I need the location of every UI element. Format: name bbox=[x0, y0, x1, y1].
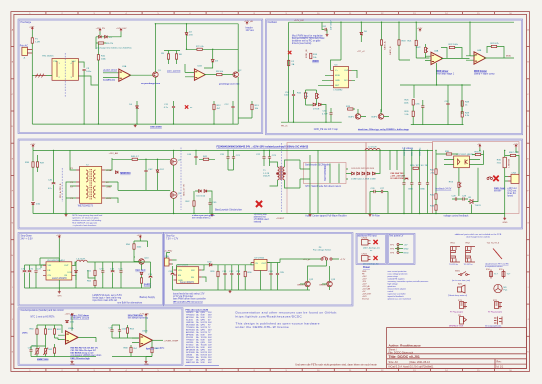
svg-text:precharge over ride: precharge over ride bbox=[219, 84, 240, 86]
connector J1 bbox=[22, 47, 28, 55]
svg-text:100n: 100n bbox=[86, 71, 92, 73]
connector CN5 bbox=[165, 258, 170, 266]
cap C12 bottom bbox=[231, 106, 234, 107]
thermistor TH2 bbox=[45, 349, 47, 354]
resistor R51 fb bbox=[94, 270, 96, 275]
svg-text:additional PS input: additional PS input bbox=[358, 234, 378, 237]
wire C44 bbox=[195, 150, 197, 165]
wire R34 bbox=[472, 150, 484, 164]
svg-text:+5V: +5V bbox=[404, 244, 408, 246]
power +12V_AN ot1 bbox=[71, 314, 73, 317]
rectifier diode pair 4 bbox=[367, 172, 370, 175]
optocoupler U7 bbox=[454, 156, 470, 168]
power +24V main bbox=[32, 145, 34, 148]
wire TH1 bbox=[36, 346, 38, 357]
resistor R23 fb2 bbox=[491, 45, 496, 47]
zener D6 top bbox=[360, 32, 363, 35]
svg-text:(on to save time, jum): (on to save time, jum) bbox=[452, 279, 471, 282]
thermistor TH1 bbox=[36, 349, 38, 354]
svg-text:3A/DC: 3A/DC bbox=[144, 283, 151, 286]
wire stub to transformer bbox=[32, 75, 52, 77]
pi filter cap 3 bbox=[418, 183, 421, 184]
resistor R30 bbox=[446, 153, 451, 155]
svg-text:SWITCHNODE: SWITCHNODE bbox=[325, 165, 327, 181]
wire cluster bbox=[390, 150, 397, 170]
svg-text:Id: 1/1: Id: 1/1 bbox=[497, 366, 504, 369]
wire C63 bbox=[330, 108, 332, 122]
svg-text:-15A: -15A bbox=[106, 186, 111, 189]
svg-text:hyst 1°C: hyst 1°C bbox=[146, 347, 155, 350]
cap C84 bbox=[269, 273, 272, 274]
svg-text:DIV: DIV bbox=[344, 80, 348, 82]
svg-text:SEC_CT 0V: SEC_CT 0V bbox=[184, 184, 186, 196]
power +12V_PS bbox=[99, 29, 101, 32]
connector J1 pins bbox=[27, 50, 32, 54]
svg-text:GATE_A: GATE_A bbox=[383, 41, 386, 50]
svg-text:1.5KE takes 1.5KE 1.5KE: 1.5KE takes 1.5KE 1.5KE bbox=[351, 177, 376, 180]
svg-text:U9 L7815: U9 L7815 bbox=[255, 257, 265, 259]
transistor Q13 bbox=[327, 281, 333, 287]
cap C20 bbox=[226, 157, 229, 158]
section box main converter bbox=[18, 139, 523, 229]
svg-text:optional aux, see mainsheet: optional aux, see mainsheet bbox=[388, 298, 412, 301]
wire U1A out to Q1 bbox=[129, 74, 153, 76]
svg-text:R40 4.7: R40 4.7 bbox=[131, 156, 139, 158]
wire U3 V+ bbox=[318, 22, 341, 85]
wire D12 bbox=[157, 159, 159, 190]
inductor L3 bbox=[77, 260, 88, 262]
wires R5 R6 bbox=[164, 51, 180, 65]
wire U5 gnd bbox=[58, 280, 60, 291]
wire C85 bbox=[277, 263, 279, 291]
resistor R33 bbox=[435, 205, 437, 210]
svg-text:OUT: OUT bbox=[262, 263, 267, 265]
svg-text:GND: GND bbox=[70, 364, 75, 366]
svg-text:see BoM for alternatives: see BoM for alternatives bbox=[117, 301, 143, 304]
wire transformer sec pin1 to C9 bbox=[78, 62, 84, 68]
svg-text:U10B: U10B bbox=[142, 331, 148, 333]
wire Q10 bbox=[134, 257, 142, 270]
wire T1 bbox=[270, 160, 301, 188]
wire rect diodes bbox=[346, 150, 380, 179]
svg-text:GND AGND: GND AGND bbox=[150, 126, 162, 129]
wire U3 out bbox=[352, 70, 358, 80]
resistor R5 bbox=[167, 54, 169, 59]
cap C57 bbox=[446, 103, 449, 104]
svg-text:+OVER_TEMP: +OVER_TEMP bbox=[164, 340, 179, 342]
wire rect inputs bbox=[300, 150, 339, 213]
resistor R37 bbox=[36, 162, 38, 167]
zener D2 bbox=[185, 33, 188, 36]
svg-text:+12V_AL: +12V_AL bbox=[244, 20, 254, 23]
cap C72 bbox=[34, 271, 37, 272]
op-amp U4B bbox=[474, 52, 486, 64]
wire trimmer bbox=[306, 90, 317, 105]
wire TL431 bbox=[468, 168, 478, 214]
CN10 pins bbox=[368, 241, 371, 244]
wire pi 3 bbox=[419, 150, 421, 213]
isolation dashed main bbox=[281, 143, 283, 212]
flag FT1 bbox=[460, 302, 464, 309]
wire C20 C21 bbox=[228, 150, 234, 170]
wire C9 down bbox=[83, 71, 85, 124]
transformer T1 bbox=[278, 167, 285, 180]
trimmer RV1 bbox=[316, 93, 319, 98]
bottom rail bbox=[32, 123, 238, 125]
diode D7 bbox=[313, 103, 316, 106]
osc right: resistor R21 bbox=[415, 40, 417, 45]
op-amp U10B bbox=[140, 334, 153, 347]
svg-text:+Load_sense: +Load_sense bbox=[103, 70, 118, 72]
su bottom rail bbox=[173, 289, 311, 291]
diode D40 bbox=[66, 320, 69, 322]
wire C80 bbox=[172, 266, 174, 290]
pink box rectifier bbox=[287, 143, 366, 214]
junction dots osc bbox=[293, 22, 471, 123]
diode D1a bbox=[99, 35, 102, 38]
svg-text:instead: instead bbox=[254, 221, 262, 224]
svg-text:RED LED: RED LED bbox=[135, 270, 145, 272]
wire R12 bbox=[213, 101, 215, 124]
wire caps down bbox=[25, 265, 47, 288]
opamp U4A input wires bbox=[425, 56, 432, 60]
svg-text:150uH: 150uH bbox=[263, 176, 270, 178]
wire C73 bbox=[102, 262, 104, 288]
U9 pins bbox=[251, 262, 270, 264]
svg-text:switch 260kHz: switch 260kHz bbox=[52, 277, 68, 280]
svg-text:- is placed in front elsewhere: - is placed in front elsewhere bbox=[72, 224, 96, 227]
svg-text:or equivalent isolator: or equivalent isolator bbox=[485, 265, 503, 268]
wire diode pair bbox=[96, 32, 121, 37]
svg-text:boost 400kHz: boost 400kHz bbox=[180, 281, 195, 284]
svg-text:+5V: +5V bbox=[477, 144, 481, 146]
svg-text:Author: Roadthecause: Author: Roadthecause bbox=[389, 344, 422, 348]
svg-text:+12V_AN: +12V_AN bbox=[139, 312, 149, 315]
resistor R9 bbox=[217, 74, 222, 76]
diode D1b bbox=[105, 35, 108, 38]
power +24V right bbox=[515, 145, 517, 148]
wire su rail top bbox=[177, 265, 206, 270]
wire R10 top/bottom bbox=[97, 44, 99, 124]
mosfet M4 right bbox=[510, 154, 515, 156]
pi filter cap 4 bbox=[426, 183, 429, 184]
minipads symbol bbox=[460, 317, 464, 325]
svg-text:+12V: +12V bbox=[417, 28, 423, 30]
svg-text:Title: DC/DC v0-J01: Title: DC/DC v0-J01 bbox=[389, 355, 420, 359]
svg-text:WE750343373: WE750343373 bbox=[78, 205, 94, 207]
wire U4B out bbox=[484, 47, 514, 59]
resistor R40 bbox=[132, 158, 137, 160]
wire D30 bbox=[75, 262, 77, 288]
transformer input hatched stub bbox=[35, 74, 46, 78]
cap C81 bbox=[223, 273, 226, 274]
svg-text:J: J bbox=[12, 319, 13, 321]
wire gnd2 bbox=[146, 357, 152, 361]
wire R30 bbox=[436, 150, 458, 169]
wire +5V5 bbox=[134, 239, 148, 248]
svg-text:TL431: TL431 bbox=[475, 205, 482, 207]
ot bottom rail right bbox=[112, 356, 152, 358]
trimmer RV3 bbox=[458, 182, 461, 187]
svg-text:+24V: +24V bbox=[29, 27, 35, 29]
buzzer BZ1 bbox=[458, 285, 466, 293]
svg-text:GATE_B: GATE_B bbox=[389, 46, 392, 55]
diode D13 bbox=[199, 190, 202, 193]
wire C12 bbox=[232, 101, 234, 124]
svg-text:1nF 100V: 1nF 100V bbox=[331, 20, 333, 30]
diode D3 bbox=[211, 60, 214, 62]
wire +12V to opamp rail bbox=[470, 22, 475, 56]
opamp U1B input wires bbox=[185, 64, 196, 77]
resistor R55 bbox=[217, 271, 219, 276]
ground main right bbox=[503, 217, 506, 220]
TP wire bbox=[395, 246, 398, 253]
svg-text:LTC6992: LTC6992 bbox=[334, 90, 344, 92]
op-amp U1B bbox=[194, 69, 205, 80]
svg-text:R70 / R71 10 / 2R: R70 / R71 10 / 2R bbox=[410, 165, 428, 167]
top rail bbox=[155, 23, 238, 25]
svg-text:MOD: MOD bbox=[506, 56, 512, 58]
op-amp U10A bbox=[66, 331, 79, 344]
wire fb divider bbox=[88, 262, 95, 288]
wire C51 bbox=[293, 90, 295, 122]
svg-text:+5VEXT: +5VEXT bbox=[276, 218, 285, 220]
transformer pins left bbox=[76, 170, 105, 198]
fuse F11 bbox=[502, 272, 505, 277]
wire R21 bbox=[415, 22, 417, 58]
section box additional PS input bbox=[356, 233, 387, 264]
wire pi 2 bbox=[411, 150, 413, 213]
shunt R35 bbox=[503, 157, 506, 167]
IC U5 pins bbox=[43, 265, 75, 275]
svg-text:D13 D14: D13 D14 bbox=[197, 196, 206, 198]
svg-text:Step-Down: Step-Down bbox=[21, 235, 33, 238]
diode D30 bbox=[75, 270, 78, 272]
wire gnd stub bbox=[504, 214, 506, 218]
connector CN3 bbox=[511, 174, 519, 183]
wire ot1 bbox=[71, 317, 73, 331]
svg-text:MOD: MOD bbox=[335, 75, 341, 77]
wire R28 R29 bbox=[461, 106, 463, 124]
pink box voltage control feedback bbox=[433, 142, 520, 214]
svg-text:4.7nF: 4.7nF bbox=[322, 113, 328, 115]
wire C76 bbox=[128, 262, 151, 288]
CONTENT bbox=[20, 20, 255, 129]
IC U5 buck bbox=[46, 262, 72, 280]
wire R3 bbox=[96, 37, 106, 49]
resistor R34 bbox=[475, 153, 480, 155]
svg-text:ON: ON bbox=[48, 275, 52, 277]
svg-text:EN: EN bbox=[178, 275, 181, 277]
wire D4 bbox=[136, 101, 138, 124]
svg-text:Power: Power bbox=[363, 267, 370, 269]
cap C94 bbox=[118, 330, 121, 331]
svg-text:File: DCDC-Driver.sch: File: DCDC-Driver.sch bbox=[389, 351, 414, 354]
X CN11 bbox=[373, 256, 377, 260]
bottom rail osc bbox=[281, 121, 342, 123]
svg-text:+12V_AN: +12V_AN bbox=[65, 312, 75, 315]
svg-text:drivers (see below): drivers (see below) bbox=[292, 42, 312, 45]
svg-text:VIN: VIN bbox=[178, 270, 182, 272]
cap C28 bbox=[455, 197, 456, 200]
resistor R52 fb bbox=[94, 280, 96, 285]
wire C28 C29 bbox=[452, 198, 468, 200]
bridge pads symbol bbox=[494, 317, 502, 325]
bus dashed mid bbox=[180, 148, 182, 211]
resistor R18 bbox=[398, 40, 400, 45]
resistor R28 bbox=[461, 101, 463, 106]
svg-text:over_current: over_current bbox=[167, 70, 181, 73]
svg-text:+TP_s2: +TP_s2 bbox=[357, 51, 365, 53]
svg-text:L2 15uH: L2 15uH bbox=[368, 147, 377, 149]
resistor R32 bbox=[435, 194, 437, 199]
wire C84 bbox=[270, 263, 272, 291]
cap C83 bbox=[237, 273, 240, 274]
osc mid rail bbox=[400, 63, 471, 114]
big X dnp bbox=[256, 201, 262, 207]
svg-text:C64 10u: C64 10u bbox=[404, 147, 406, 156]
zener D12 bbox=[156, 170, 159, 173]
ground mid pi bbox=[369, 214, 372, 217]
ecap C70 bbox=[23, 271, 27, 272]
wire R25 R26 bbox=[412, 105, 414, 125]
wire R7 to Q2 column bbox=[187, 48, 239, 50]
cap C75 bbox=[119, 271, 122, 272]
svg-text:OUT: OUT bbox=[344, 70, 349, 72]
wire su input bbox=[167, 253, 177, 265]
svg-text:MMBT3906: MMBT3906 bbox=[37, 359, 49, 361]
ground su bbox=[229, 290, 232, 293]
cap C51 bbox=[292, 94, 295, 95]
main transformer T2 bbox=[80, 166, 102, 203]
wire Q2 collector/emitter bbox=[237, 24, 239, 124]
wire D32 rail bbox=[212, 264, 254, 266]
resistor R15 bbox=[304, 93, 306, 98]
section box Step-Down bbox=[18, 233, 164, 307]
resistor R68 bbox=[130, 347, 132, 352]
rectifier diode pair 2 bbox=[357, 172, 360, 175]
wire M4 bbox=[505, 148, 519, 175]
cap C11 bottom bbox=[172, 106, 175, 107]
wire R31 bbox=[435, 174, 437, 193]
svg-text:dead time: 100ns typ, set by R: dead time: 100ns typ, set by R19/R20 + b… bbox=[358, 128, 410, 131]
wire U9 bbox=[251, 263, 280, 291]
svg-text:Pi-Filter: Pi-Filter bbox=[372, 214, 380, 217]
osc bottom rail 2 bbox=[411, 124, 464, 126]
wire C94 bbox=[119, 325, 121, 338]
cap C93 bbox=[110, 330, 113, 331]
wire Q5 bbox=[118, 176, 174, 214]
opamp U10A in wires bbox=[55, 335, 65, 339]
fuse F10 bbox=[490, 272, 493, 277]
cap C42 bbox=[144, 170, 147, 171]
svg-text:error amp stage 1: error amp stage 1 bbox=[436, 73, 455, 76]
wire R32 R33 bbox=[435, 199, 437, 213]
svg-text:of 10mV/°C sensed: of 10mV/°C sensed bbox=[70, 317, 89, 319]
svg-text:GND: GND bbox=[144, 364, 149, 366]
wire pi 1 bbox=[403, 150, 405, 213]
isolation dashed line bbox=[64, 53, 66, 98]
wire R56 bbox=[244, 265, 246, 290]
cap C21 bbox=[232, 157, 235, 158]
wire TH2 bbox=[31, 346, 46, 357]
svg-text:clamp + slope comp: clamp + slope comp bbox=[474, 74, 495, 76]
resistor R36 bbox=[32, 162, 34, 167]
svg-text:voltage control feedback: voltage control feedback bbox=[444, 214, 470, 217]
svg-text:R23 47k: R23 47k bbox=[491, 43, 500, 45]
wire C93 bbox=[112, 325, 120, 338]
resistor R13 bottom bbox=[251, 104, 253, 109]
wire divider ot bbox=[37, 325, 62, 346]
connector CN10 bbox=[362, 240, 369, 246]
wire Q1 collector to top rail bbox=[154, 24, 156, 73]
svg-text:GRUN: GRUN bbox=[319, 284, 326, 286]
svg-text:TO-247 hs: TO-247 hs bbox=[464, 264, 473, 266]
wire R40 bbox=[112, 158, 170, 160]
svg-text:VIN: VIN bbox=[48, 265, 52, 267]
svg-text:Size: A3: Size: A3 bbox=[389, 361, 399, 364]
svg-text:MOD driver: MOD driver bbox=[436, 71, 448, 73]
svg-text:F22#09#18#09#21#36#42 24V→±15V: F22#09#18#09#21#36#42 24V→±15V+18V isola… bbox=[217, 145, 309, 148]
svg-text:(but thought to be useful): (but thought to be useful) bbox=[466, 236, 489, 239]
svg-text:sense+: sense+ bbox=[494, 190, 502, 192]
trimmer RV2 bbox=[425, 47, 428, 52]
regulator U9 bbox=[254, 259, 267, 270]
ground C62 bbox=[326, 34, 329, 37]
connector CN11 bbox=[362, 256, 369, 262]
cap C29 bbox=[463, 197, 464, 200]
IC U3 oscillator bbox=[334, 67, 349, 88]
resistor R26 bbox=[412, 111, 414, 116]
svg-text:GND: GND bbox=[408, 188, 413, 190]
ground mid left bbox=[65, 214, 68, 217]
svg-text:GRUN: GRUN bbox=[297, 284, 304, 286]
wire ot2 bbox=[145, 317, 147, 334]
svg-text:+12V_PS: +12V_PS bbox=[96, 28, 106, 30]
svg-text:Backup Supply: Backup Supply bbox=[140, 297, 156, 299]
cap C22 bbox=[262, 157, 265, 158]
wire D6 bbox=[360, 22, 362, 42]
svg-text:KiCad E.D.A. kicad (5.1.9)-1-: KiCad E.D.A. kicad (5.1.9)-1-gfd72bd8a61 bbox=[389, 366, 434, 369]
svg-text:fan always spinning: fan always spinning bbox=[128, 317, 149, 319]
svg-text:U5 LM2679S-ADJ: U5 LM2679S-ADJ bbox=[47, 259, 65, 262]
wire R18 bbox=[399, 22, 410, 60]
wire U10B out bbox=[152, 339, 163, 341]
wire R36 R37 bbox=[33, 150, 38, 201]
IC U6 boost bbox=[177, 267, 199, 284]
svg-text:#MOD: #MOD bbox=[312, 61, 319, 63]
svg-text:TL1 TL2 TL3: TL1 TL2 TL3 bbox=[487, 243, 500, 245]
resistor R69 bbox=[151, 347, 153, 352]
wire RV2 bbox=[416, 44, 429, 58]
svg-text:PRI_A / PRI_B: PRI_A / PRI_B bbox=[59, 183, 62, 198]
svg-text:(5V_backup_in): (5V_backup_in) bbox=[363, 263, 379, 265]
section box Oscillator bbox=[266, 19, 523, 135]
wire D31 R53 bbox=[141, 275, 143, 288]
op-amp U4A bbox=[431, 52, 443, 64]
fuse F1 bbox=[31, 38, 33, 43]
wire C26 C27 bbox=[370, 192, 388, 214]
wire U5 bbox=[40, 258, 76, 280]
svg-text:Precharge: Precharge bbox=[21, 21, 32, 24]
svg-text:MBR0540: MBR0540 bbox=[120, 172, 131, 175]
cap C63 bbox=[329, 113, 332, 114]
wire fb bbox=[455, 48, 462, 59]
wire diodes bbox=[306, 105, 327, 123]
led D31 bbox=[140, 272, 143, 274]
svg-text:CN11: CN11 bbox=[362, 254, 368, 256]
wire +24V to F1 bbox=[31, 30, 33, 38]
